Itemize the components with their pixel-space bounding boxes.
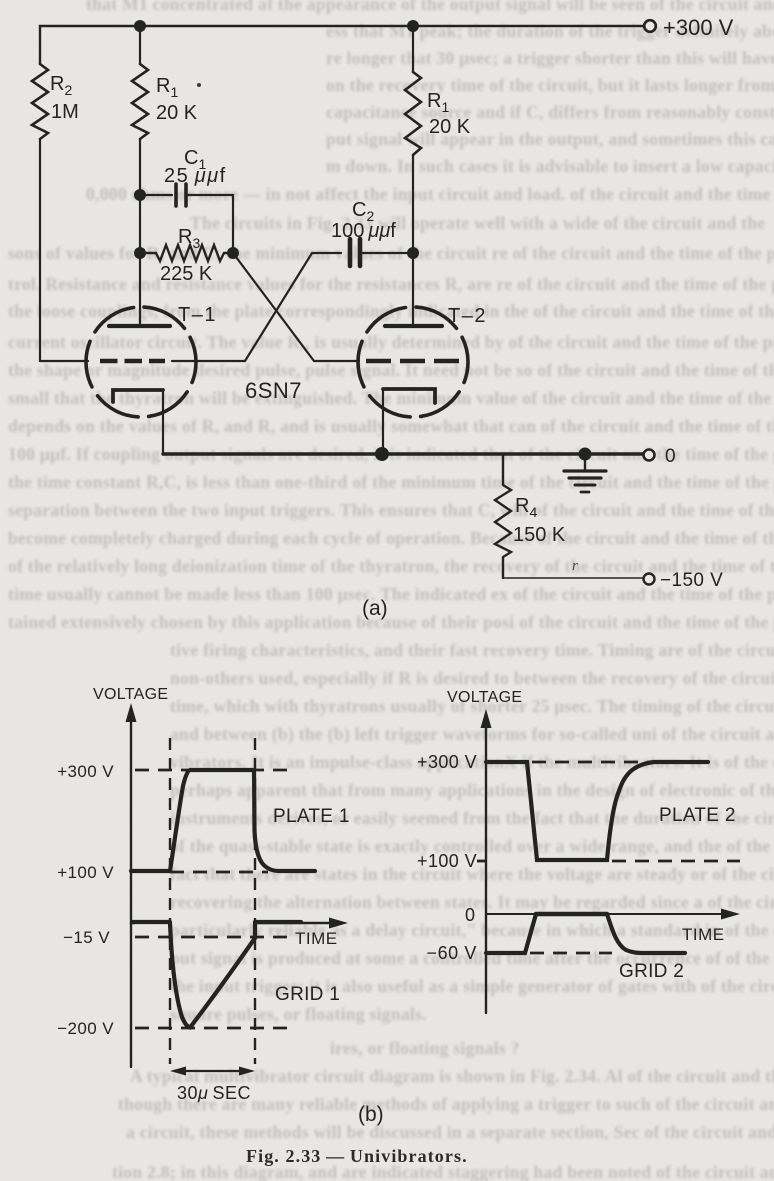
wire cathode bus	[163, 452, 644, 455]
svg-text:25 μμf: 25 μμf	[164, 165, 227, 187]
svg-text:1M: 1M	[51, 101, 79, 123]
wire cross to T2 grid	[233, 253, 359, 361]
ground	[584, 454, 586, 470]
svg-text:−200 V: −200 V	[57, 1019, 114, 1038]
svg-text:VOLTAGE: VOLTAGE	[447, 689, 522, 706]
node C2 right	[407, 247, 419, 259]
wire R2 bottom to T1 grid	[39, 139, 41, 361]
svg-text:TIME: TIME	[295, 929, 338, 948]
svg-text:VOLTAGE: VOLTAGE	[93, 686, 168, 703]
svg-text:TIME: TIME	[682, 925, 725, 944]
wire cross from T1 grid to C2	[245, 253, 341, 361]
svg-text:20 K: 20 K	[156, 102, 198, 124]
waveform plate 1	[131, 770, 315, 871]
node R3 left	[134, 247, 146, 259]
right graph voltage axis	[485, 722, 487, 1013]
svg-text:T–1: T–1	[178, 304, 217, 326]
capacitor C2	[350, 239, 360, 266]
30usec span arrow	[175, 1070, 250, 1072]
svg-text:PLATE 2: PLATE 2	[659, 805, 736, 826]
svg-text:PLATE 1: PLATE 1	[273, 806, 350, 827]
wire T2 cathode down	[382, 389, 384, 454]
svg-text:−15 V: −15 V	[63, 928, 110, 947]
node C1 left	[134, 189, 146, 201]
wire T1 cathode down	[162, 390, 164, 454]
node cathode junction	[375, 447, 389, 461]
terminal 0	[644, 450, 655, 461]
resistor R3	[140, 245, 233, 261]
right dashed level +100 left stub	[477, 860, 486, 863]
svg-text:GRID 2: GRID 2	[619, 961, 684, 982]
svg-text:r: r	[572, 558, 578, 574]
left dashed level +300	[135, 769, 296, 772]
svg-text:100 μμf: 100 μμf	[331, 220, 396, 242]
svg-text:+300 V: +300 V	[57, 762, 114, 781]
T2 cathode	[383, 389, 435, 403]
right graph time axis	[486, 913, 728, 915]
svg-text:20 K: 20 K	[429, 116, 471, 138]
svg-text:+300 V: +300 V	[417, 752, 477, 772]
terminal +300 V	[644, 20, 656, 32]
node junction top R1 left	[134, 20, 146, 32]
wire R1R bottom to T2 plate	[412, 155, 414, 324]
wire R1 left top	[139, 26, 141, 64]
terminal -150 V	[644, 574, 655, 585]
wire C1 left lead	[140, 194, 172, 196]
right dashed level -60	[530, 952, 612, 955]
resistor R2	[32, 64, 48, 139]
dashed vertical t0	[169, 738, 171, 1064]
svg-text:−60 V: −60 V	[426, 943, 477, 963]
faint bleed-through body text layer	[0, 0, 774, 1]
stray dot after 20 K	[197, 83, 201, 87]
wire R4 to -150V terminal	[503, 577, 643, 579]
wire C1 right lead down to R3 right	[186, 195, 233, 250]
resistor R1 left	[132, 64, 148, 139]
svg-text:225 K: 225 K	[160, 263, 213, 285]
waveform grid 1	[133, 920, 170, 924]
capacitor C1	[176, 184, 186, 206]
caption	[246, 1146, 468, 1167]
svg-text:150 K: 150 K	[513, 524, 566, 546]
left dashed level -15	[135, 936, 290, 939]
svg-text:−150 V: −150 V	[660, 570, 723, 591]
svg-text:T–2: T–2	[448, 305, 487, 327]
node junction top R1 right	[407, 20, 419, 32]
T1 plate	[109, 324, 170, 328]
svg-text:GRID 1: GRID 1	[275, 984, 340, 1005]
dashed vertical t1	[254, 738, 256, 1064]
T1 cathode	[113, 390, 163, 402]
T2 plate	[385, 324, 442, 328]
left graph time axis	[131, 922, 336, 925]
wire R1 right top	[412, 26, 414, 72]
tube T2 envelope	[358, 307, 468, 417]
left graph voltage axis	[130, 716, 132, 1067]
svg-text:+100 V: +100 V	[57, 863, 114, 882]
svg-text:6SN7: 6SN7	[245, 378, 302, 403]
T1 grid	[40, 360, 88, 362]
tube T1 envelope	[86, 307, 196, 417]
svg-text:0: 0	[465, 905, 475, 925]
waveform plate 2	[486, 762, 708, 860]
node R3 right	[227, 247, 239, 259]
svg-text:+300 V: +300 V	[663, 15, 734, 40]
waveform grid 2	[486, 914, 536, 953]
resistor R1 right	[405, 72, 421, 155]
wire top bus +300V	[40, 26, 644, 64]
node ground junction	[579, 448, 592, 461]
svg-text:(a): (a)	[362, 597, 388, 620]
right dashed level +300	[532, 761, 660, 764]
right dashed level +100	[612, 860, 740, 863]
left dashed level +100	[170, 871, 268, 874]
T2 grid dashes	[366, 359, 466, 364]
resistor R4	[495, 454, 511, 578]
wire R1L bottom to plate node	[139, 139, 141, 324]
wire C2 right lead	[362, 252, 413, 254]
svg-text:(b): (b)	[358, 1103, 384, 1126]
svg-text:0: 0	[665, 446, 676, 467]
left dashed level -200	[135, 1027, 290, 1030]
svg-text:30μ SEC: 30μ SEC	[177, 1083, 251, 1103]
svg-text:+100 V: +100 V	[417, 851, 477, 871]
